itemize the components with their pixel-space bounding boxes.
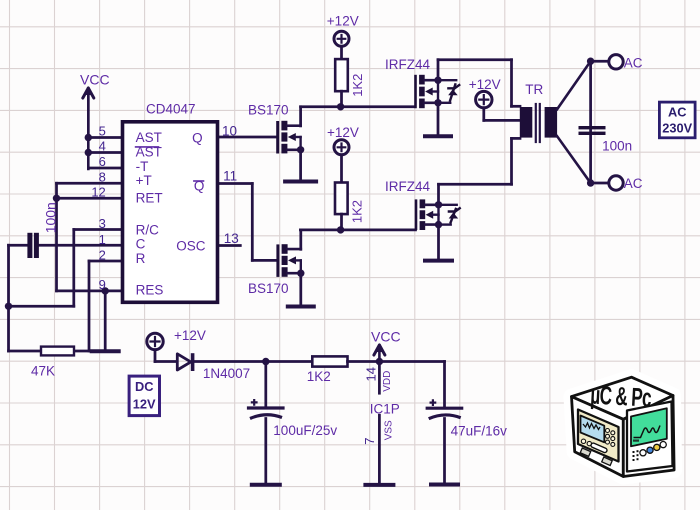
svg-text:1K2: 1K2 xyxy=(350,74,365,97)
svg-text:C: C xyxy=(136,237,146,252)
svg-text:1: 1 xyxy=(99,232,106,247)
svg-text:Q: Q xyxy=(192,131,203,146)
svg-text:+12V: +12V xyxy=(327,13,359,28)
svg-text:AC: AC xyxy=(668,104,686,119)
svg-text:IRFZ44: IRFZ44 xyxy=(385,57,431,72)
svg-text:13: 13 xyxy=(224,231,239,246)
svg-text:VSS: VSS xyxy=(384,420,395,440)
svg-text:3: 3 xyxy=(99,216,106,231)
svg-text:OSC: OSC xyxy=(176,238,206,253)
svg-text:47uF/16v: 47uF/16v xyxy=(451,424,508,439)
svg-text:RES: RES xyxy=(136,282,164,297)
svg-text:9: 9 xyxy=(99,277,106,292)
svg-text:DC: DC xyxy=(135,379,153,394)
svg-text:VCC: VCC xyxy=(371,329,401,345)
svg-text:8: 8 xyxy=(99,170,106,185)
svg-text:AST: AST xyxy=(136,130,162,145)
svg-text:100n: 100n xyxy=(602,139,632,154)
svg-text:1N4007: 1N4007 xyxy=(203,366,250,381)
svg-text:47K: 47K xyxy=(31,363,55,378)
svg-text:IRFZ44: IRFZ44 xyxy=(385,179,431,194)
svg-text:R: R xyxy=(136,251,146,266)
svg-text:VCC: VCC xyxy=(80,72,110,88)
svg-text:1K2: 1K2 xyxy=(349,200,364,223)
svg-text:230V: 230V xyxy=(662,121,692,136)
svg-text:2: 2 xyxy=(99,247,106,262)
svg-text:AC: AC xyxy=(624,176,643,191)
svg-text:5: 5 xyxy=(99,124,106,139)
svg-text:14: 14 xyxy=(363,367,378,381)
svg-text:10: 10 xyxy=(222,123,237,138)
svg-text:+T: +T xyxy=(136,173,152,188)
svg-text:4: 4 xyxy=(99,139,106,154)
svg-text:7: 7 xyxy=(362,437,377,444)
svg-text:BS170: BS170 xyxy=(248,103,289,118)
svg-text:BS170: BS170 xyxy=(248,281,289,296)
svg-text:+12V: +12V xyxy=(327,125,359,140)
svg-text:+12V: +12V xyxy=(174,328,206,343)
svg-text:TR: TR xyxy=(525,82,543,97)
svg-text:100n: 100n xyxy=(43,202,59,233)
svg-text:+12V: +12V xyxy=(469,77,501,92)
svg-text:-T: -T xyxy=(136,159,149,174)
svg-text:11: 11 xyxy=(223,169,237,184)
svg-text:R/C: R/C xyxy=(136,222,160,237)
svg-text:100uF/25v: 100uF/25v xyxy=(273,423,337,438)
svg-text:VDD: VDD xyxy=(382,371,393,392)
svg-text:12: 12 xyxy=(91,185,105,200)
svg-text:12V: 12V xyxy=(133,397,156,412)
svg-text:IC1P: IC1P xyxy=(370,402,400,417)
svg-text:6: 6 xyxy=(99,154,106,169)
svg-text:RET: RET xyxy=(136,191,163,206)
svg-text:CD4047: CD4047 xyxy=(146,102,196,117)
svg-text:1K2: 1K2 xyxy=(307,369,331,384)
svg-text:AC: AC xyxy=(624,56,643,71)
